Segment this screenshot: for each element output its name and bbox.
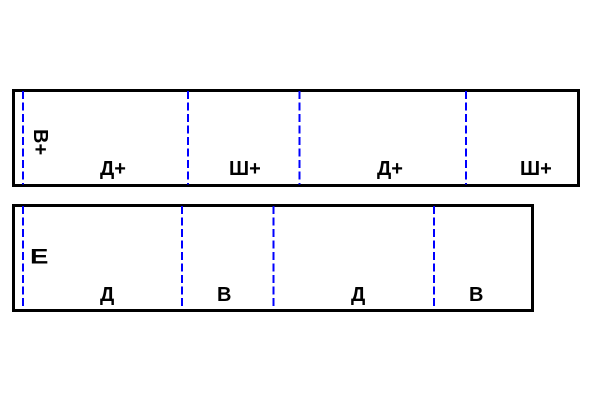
panel outline: bottom strip [12, 204, 534, 312]
label Д bottom section 3 [351, 285, 365, 305]
fold line bottom strip x=273.5 [273, 206, 275, 309]
fold line top strip x=466 [465, 91, 467, 185]
label Д+ (length) section 1 [100, 159, 126, 179]
label В bottom section 2 [217, 285, 231, 305]
label Ш+ (width) section 4 [520, 159, 552, 179]
label В+ (height), rotated vertical [30, 129, 50, 155]
fold line top strip glue flap x=23 [22, 91, 24, 185]
fold line top strip x=188 [187, 91, 189, 185]
label Е (flap) [30, 246, 48, 268]
label Д+ (length) section 3 [377, 159, 403, 179]
fold line bottom strip x=182 [181, 206, 183, 309]
label Д bottom section 1 [100, 285, 114, 305]
panel outline: top strip (side band) [12, 89, 580, 187]
fold line top strip x=299.5 [299, 91, 301, 185]
fold line bottom strip glue flap x=23 [22, 206, 24, 309]
fold line bottom strip x=434 [433, 206, 435, 309]
label В bottom section 4 [469, 285, 483, 305]
label Ш+ (width) section 2 [229, 159, 261, 179]
